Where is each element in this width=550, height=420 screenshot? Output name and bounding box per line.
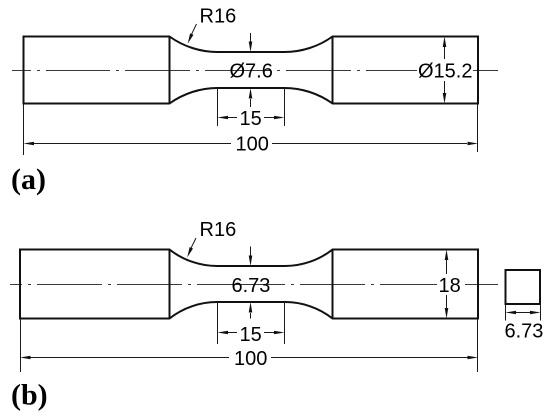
svg-text:100: 100 <box>236 134 269 156</box>
tangent line left (b) <box>169 250 171 319</box>
dimension 18 (b): upper arrow <box>446 259 448 274</box>
cross-section square (b) <box>506 270 541 304</box>
svg-text:15: 15 <box>240 108 262 130</box>
dimension 100 (b): extension lines <box>20 319 22 373</box>
tangent line right (a) <box>332 37 334 104</box>
dimension Ø7.6 (a): upper arrow <box>250 33 252 42</box>
centerline B <box>10 284 498 286</box>
svg-text:(a): (a) <box>11 163 46 196</box>
centerline A <box>12 70 498 72</box>
specimen (b) outline <box>20 250 478 319</box>
dimension 100 (a): dim line + arrows <box>34 143 231 145</box>
dimension 18 (b): lower arrow <box>446 295 448 308</box>
svg-text:6.73: 6.73 <box>232 275 271 297</box>
svg-text:R16: R16 <box>200 219 237 241</box>
specimen (a) outline <box>24 37 479 104</box>
dimension 6.73 (b): lower arrow <box>250 313 252 319</box>
dimension Ø15.2 (a): lower arrow <box>444 81 446 93</box>
dimension 100 (b): dim line + arrows <box>31 357 230 359</box>
dimension 6.73 (b): upper arrow <box>250 247 252 257</box>
svg-text:(b): (b) <box>11 379 48 412</box>
dimension 15 (b): extension lines <box>217 302 219 344</box>
dimension Ø15.2 (a): upper arrow <box>444 46 446 59</box>
dimension R16 (b): leader <box>191 238 196 249</box>
dimension R16 (a): leader <box>191 24 196 35</box>
dimension 15 (a): dim line + arrows <box>228 117 237 119</box>
dimension 6.73 square: dim line + arrows <box>514 312 531 314</box>
svg-text:6.73: 6.73 <box>505 321 544 343</box>
svg-text:100: 100 <box>234 348 267 370</box>
svg-text:Ø15.2: Ø15.2 <box>418 61 472 83</box>
dimension 15 (a): extension lines <box>217 88 219 126</box>
dimension 100 (a): extension lines <box>23 104 25 156</box>
svg-text:Ø7.6: Ø7.6 <box>230 61 273 83</box>
svg-text:R16: R16 <box>200 6 237 28</box>
svg-text:18: 18 <box>439 275 461 297</box>
tangent line right (b) <box>332 250 334 319</box>
dimension 15 (b): dim line + arrows <box>228 332 237 334</box>
dimension Ø7.6 (a): lower arrow <box>250 99 252 107</box>
dimension 6.73 square: extension lines <box>505 304 507 321</box>
tangent line left (a) <box>169 37 171 104</box>
svg-text:15: 15 <box>240 324 262 346</box>
